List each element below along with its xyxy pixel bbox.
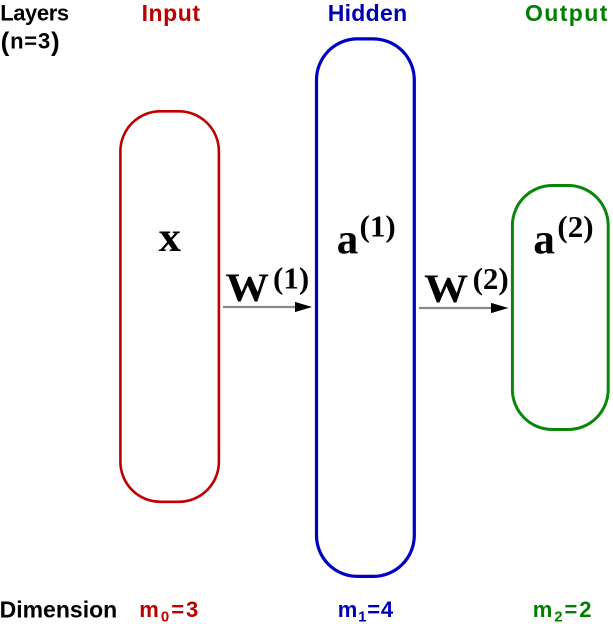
svg-text:(n=3): (n=3) <box>1 26 61 56</box>
svg-text:a: a <box>533 216 555 263</box>
svg-text:W: W <box>424 266 468 311</box>
arrow 2 shaft <box>419 307 492 309</box>
arrow 1 head <box>295 302 312 312</box>
svg-text:Dimension: Dimension <box>0 597 117 623</box>
svg-text:a: a <box>337 216 359 263</box>
svg-text:Hidden: Hidden <box>328 0 408 26</box>
svg-text:(2): (2) <box>473 261 509 296</box>
output layer pill <box>512 186 608 430</box>
svg-text:(2): (2) <box>557 209 593 244</box>
svg-text:W: W <box>226 265 270 310</box>
svg-text:Output: Output <box>525 0 609 26</box>
arrow 1 shaft <box>223 306 296 308</box>
svg-text:(1): (1) <box>273 260 309 295</box>
svg-text:x: x <box>159 215 181 261</box>
svg-text:(1): (1) <box>360 209 396 244</box>
arrow 2 head <box>491 303 509 313</box>
svg-text:Input: Input <box>142 0 201 26</box>
svg-text:Layers: Layers <box>0 0 69 25</box>
input layer pill <box>120 111 218 502</box>
hidden layer pill <box>317 39 415 577</box>
